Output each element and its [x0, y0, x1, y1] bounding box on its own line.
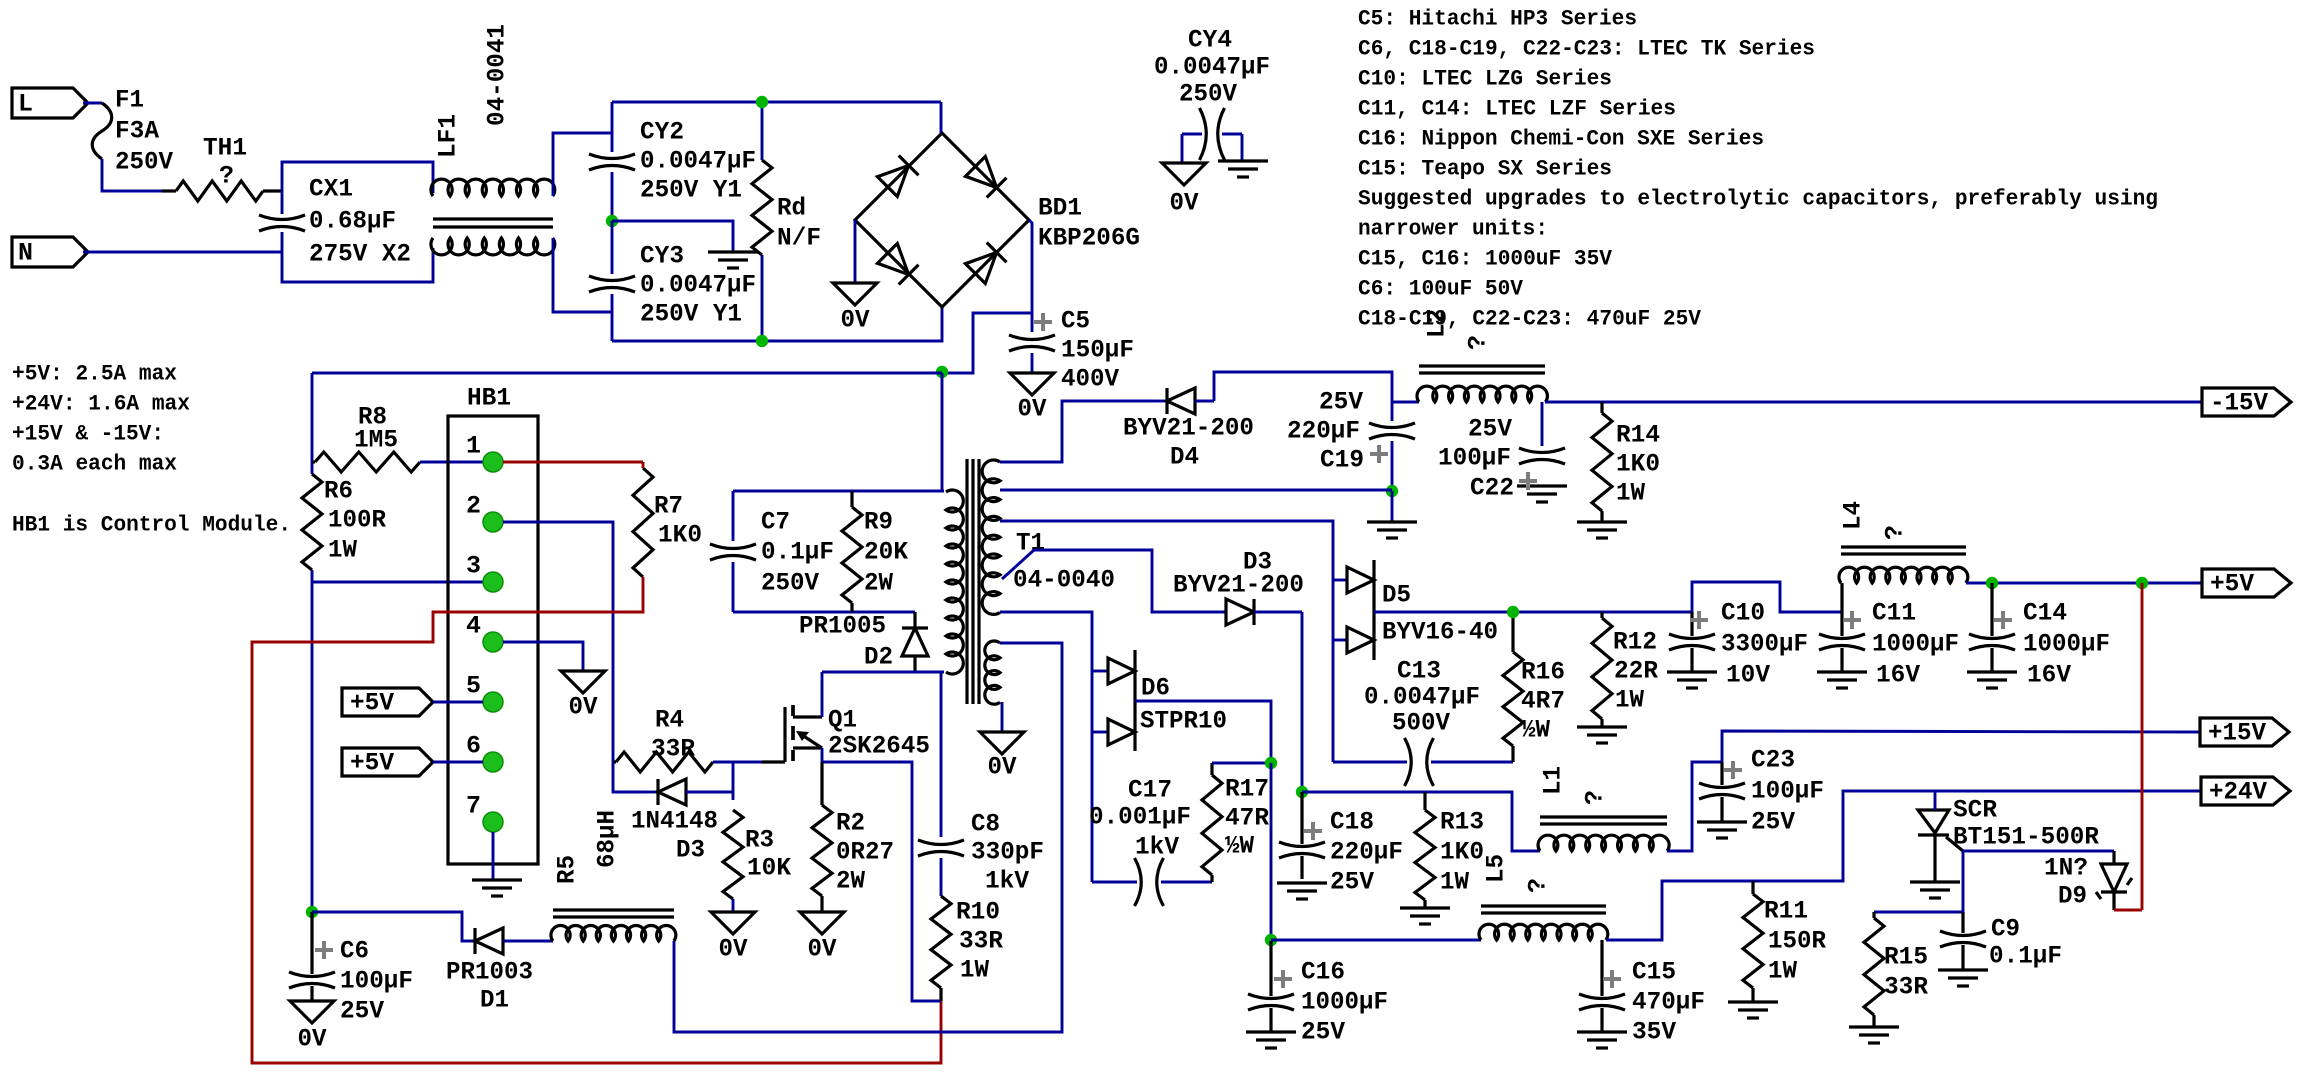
- wire C19 bottom lead: [1391, 441, 1394, 491]
- svg-text:0.0047µF: 0.0047µF: [640, 271, 756, 300]
- svg-text:C23: C23: [1751, 746, 1795, 775]
- transformer T1 secondary top winding: [982, 460, 1000, 614]
- wire D3s to R3 gate stub: [732, 762, 735, 800]
- svg-text:0V: 0V: [1018, 395, 1047, 424]
- power flag -15V: [2202, 388, 2291, 416]
- svg-text:2W: 2W: [864, 569, 893, 598]
- wire SCR gate net: [1963, 850, 2114, 853]
- ground C15: [1577, 1030, 1627, 1033]
- wire D3 to +15V node: [1301, 612, 1304, 792]
- resistor R8: [312, 460, 315, 463]
- svg-text:2: 2: [466, 492, 481, 521]
- svg-text:C13: C13: [1397, 657, 1441, 686]
- wire bridge output down: [942, 220, 1032, 373]
- svg-text:KBP206G: KBP206G: [1038, 224, 1140, 253]
- svg-text:150R: 150R: [1768, 927, 1826, 956]
- svg-text:+5V: +5V: [350, 689, 394, 718]
- capacitor C6: [310, 912, 313, 974]
- wire D6 node down: [1270, 763, 1273, 940]
- ground C18: [1277, 881, 1327, 884]
- svg-text:1kV: 1kV: [1135, 833, 1179, 862]
- wire T1 to C19 junction: [1000, 489, 1392, 492]
- wire CX1 top edge: [282, 162, 433, 214]
- junction D6 output node: [1265, 757, 1277, 769]
- svg-text:½W: ½W: [1521, 716, 1550, 745]
- power flag +24V: [2201, 777, 2290, 805]
- svg-text:0.1µF: 0.1µF: [1989, 942, 2062, 971]
- wire C5 top lead: [1031, 313, 1034, 332]
- svg-text:250V: 250V: [761, 569, 819, 598]
- connector HB1 pin 7: [483, 812, 503, 832]
- polarity mark C19: [1370, 445, 1388, 463]
- svg-text:HB1: HB1: [467, 384, 511, 413]
- svg-text:C15: Teapo SX Series: C15: Teapo SX Series: [1358, 157, 1612, 182]
- junction +5V red branch: [2136, 577, 2148, 589]
- junction C16 node: [1265, 934, 1277, 946]
- transistor Q1 source bar: [793, 746, 822, 749]
- wire R4 right to gate: [713, 761, 762, 764]
- svg-text:C16: C16: [1301, 958, 1345, 987]
- svg-text:BYV21-200: BYV21-200: [1123, 414, 1254, 443]
- ground C11: [1817, 670, 1867, 673]
- transistor Q1 drain bar: [793, 715, 822, 718]
- ground C5 0V: [1010, 373, 1054, 395]
- wire CY2 to midpoint: [611, 172, 614, 221]
- svg-text:Q1: Q1: [828, 706, 857, 735]
- ground R2 0V: [800, 912, 844, 934]
- wire T1 bottom tap to D6: [1000, 612, 1092, 882]
- polarity mark C23: [1724, 761, 1742, 779]
- svg-text:0.0047µF: 0.0047µF: [1154, 53, 1270, 82]
- diode D2 PR1005: [913, 612, 916, 628]
- capacitor CY4: [1182, 133, 1202, 136]
- svg-text:C11, C14: LTEC LZF Series: C11, C14: LTEC LZF Series: [1358, 97, 1676, 122]
- polarity mark C22: [1519, 472, 1537, 490]
- wire C8 to R10: [940, 858, 943, 896]
- svg-text:½W: ½W: [1225, 832, 1254, 861]
- diode D1 PR1003: [474, 940, 475, 943]
- wire aux to D1: [312, 912, 474, 941]
- svg-text:C6: 100uF 50V: C6: 100uF 50V: [1358, 277, 1524, 302]
- svg-text:1K0: 1K0: [658, 521, 702, 550]
- svg-text:+15V: +15V: [2208, 719, 2266, 748]
- svg-text:C5: Hitachi HP3 Series: C5: Hitachi HP3 Series: [1358, 7, 1637, 32]
- svg-text:L2: L2: [1423, 309, 1452, 338]
- diode D9 1N: [2112, 851, 2115, 864]
- svg-text:0V: 0V: [569, 693, 598, 722]
- fuse F1: [92, 103, 112, 159]
- wire bridge top to rail: [940, 102, 943, 133]
- polarity mark C11: [1843, 611, 1861, 629]
- svg-text:-15V: -15V: [2210, 389, 2268, 418]
- polarity mark C5: [1034, 313, 1052, 331]
- svg-text:BT151-500R: BT151-500R: [1953, 823, 2099, 852]
- svg-text:25V: 25V: [1468, 415, 1512, 444]
- wire red +5V sense: [2141, 583, 2144, 910]
- capacitor CY2: [589, 154, 635, 159]
- svg-text:04-0041: 04-0041: [483, 24, 512, 126]
- wire pin6 flag: [433, 761, 483, 764]
- svg-text:275V X2: 275V X2: [309, 240, 411, 269]
- junction aux rail: [306, 906, 318, 918]
- power flag +5V output: [2202, 569, 2291, 597]
- inductor L2: [1417, 386, 1547, 402]
- ground R15: [1849, 1025, 1899, 1028]
- thermistor TH1: [162, 189, 176, 192]
- wire +15V node rail: [1302, 792, 1540, 851]
- svg-text:0V: 0V: [1170, 189, 1199, 218]
- svg-text:R16: R16: [1521, 658, 1565, 687]
- svg-text:1000µF: 1000µF: [1872, 630, 1959, 659]
- ground SCR cathode: [1910, 880, 1960, 883]
- svg-text:1000µF: 1000µF: [1301, 988, 1388, 1017]
- wire Q1 drain lead: [821, 672, 824, 717]
- wire gate to C9 R15: [1874, 851, 1963, 912]
- connector HB1 pin 3: [483, 572, 503, 592]
- svg-text:1N4148: 1N4148: [631, 807, 718, 836]
- svg-text:220µF: 220µF: [1287, 417, 1360, 446]
- wire C10 bump: [1692, 582, 1842, 612]
- svg-text:+15V & -15V:: +15V & -15V:: [12, 422, 164, 447]
- bridge rectifier BD1 diamond: [855, 133, 1029, 307]
- capacitor C18: [1300, 792, 1303, 844]
- svg-text:20K: 20K: [864, 538, 908, 567]
- svg-text:16V: 16V: [2027, 661, 2071, 690]
- svg-text:C8: C8: [971, 810, 1000, 839]
- svg-text:33R: 33R: [959, 927, 1003, 956]
- bridge diode upper-left: [878, 165, 909, 196]
- inductor R5: [551, 925, 676, 941]
- svg-text:F1: F1: [115, 86, 144, 115]
- wire L1 to +15V rail: [1667, 731, 2200, 851]
- wire C19 junction to ground: [1391, 491, 1394, 522]
- svg-text:150µF: 150µF: [1061, 336, 1134, 365]
- connector HB1 pin 5: [483, 692, 503, 712]
- connector HB1 pin 6: [483, 752, 503, 772]
- svg-text:R2: R2: [836, 809, 865, 838]
- ground CY4 0V: [1162, 163, 1206, 185]
- wire CY3 bottom lead: [611, 294, 614, 341]
- polarity mark C6: [315, 941, 333, 959]
- svg-text:400V: 400V: [1061, 365, 1119, 394]
- transistor Q1 body arrow: [802, 735, 822, 748]
- bridge diode lower-left: [878, 244, 909, 275]
- svg-text:R17: R17: [1225, 775, 1269, 804]
- ground C9: [1938, 968, 1988, 971]
- ground C10: [1667, 670, 1717, 673]
- diode D3 1N4148: [644, 791, 658, 794]
- wire T1 bottom pin to ground: [1001, 702, 1004, 732]
- diode D5 BYV16-40 dual: [1347, 567, 1374, 593]
- diode D3 BYV21-200: [1152, 611, 1226, 614]
- junction CY midpoint: [606, 215, 618, 227]
- svg-text:0V: 0V: [988, 753, 1017, 782]
- svg-text:3: 3: [466, 552, 481, 581]
- resistor R17: [1210, 763, 1213, 775]
- wire D9 to red return: [2114, 909, 2142, 912]
- junction C14 top: [1986, 577, 1998, 589]
- wire rectified to left rail: [312, 372, 942, 375]
- svg-text:220µF: 220µF: [1330, 838, 1403, 867]
- svg-text:?: ?: [1464, 335, 1493, 350]
- svg-text:3300µF: 3300µF: [1721, 630, 1808, 659]
- svg-text:1W: 1W: [1440, 868, 1469, 897]
- wire C16 to L5: [1271, 939, 1481, 942]
- wire C7 top lead: [732, 491, 735, 541]
- wire pin1 red: [503, 461, 643, 464]
- svg-text:R5: R5: [553, 855, 582, 884]
- svg-text:04-0040: 04-0040: [1013, 566, 1115, 595]
- transistor Q1 channel: [791, 705, 795, 761]
- svg-text:1W: 1W: [328, 536, 357, 565]
- svg-text:330pF: 330pF: [971, 838, 1044, 867]
- svg-text:1W: 1W: [1768, 957, 1797, 986]
- svg-text:Rd: Rd: [777, 194, 806, 223]
- connector HB1 pin 2: [483, 512, 503, 532]
- ground T1 secondary 0V: [980, 732, 1024, 754]
- ground Y-cap midpoint: [708, 250, 758, 253]
- wire CX1 bottom edge: [282, 232, 433, 282]
- wire Rd bottom lead: [761, 255, 764, 341]
- transistor Q1 gate: [762, 760, 785, 763]
- wire CY4 left to ground: [1181, 134, 1184, 163]
- svg-text:500V: 500V: [1392, 709, 1450, 738]
- wire D6 lower stub: [1092, 731, 1108, 734]
- svg-text:22R: 22R: [1614, 657, 1658, 686]
- svg-text:D3: D3: [676, 836, 705, 865]
- wire F1 to TH1: [102, 159, 162, 191]
- svg-text:250V: 250V: [115, 148, 173, 177]
- wire SCR anode: [1934, 791, 1937, 810]
- wire D5 output rail: [1374, 611, 1692, 614]
- ground C6 0V: [290, 1001, 334, 1023]
- wire pin2 to gate net: [503, 522, 613, 762]
- svg-text:33R: 33R: [1884, 973, 1928, 1002]
- wire C22 top lead: [1541, 402, 1544, 446]
- ground R12: [1577, 725, 1627, 728]
- svg-text:STPR10: STPR10: [1140, 707, 1227, 736]
- wire pin4 to ground: [503, 642, 583, 671]
- ground bridge AC left 0V: [833, 283, 877, 305]
- wire Rd top lead: [761, 102, 764, 160]
- resistor R10: [931, 896, 951, 988]
- capacitor C15: [1600, 940, 1603, 996]
- svg-text:PR1005: PR1005: [799, 612, 886, 641]
- ground pin7: [472, 878, 522, 881]
- svg-text:5: 5: [466, 672, 481, 701]
- svg-text:C15: C15: [1632, 958, 1676, 987]
- svg-text:BYV21-200: BYV21-200: [1173, 571, 1304, 600]
- svg-text:0V: 0V: [841, 306, 870, 335]
- svg-text:F3A: F3A: [115, 117, 159, 146]
- resistor R13: [1423, 792, 1426, 810]
- inductor L4: [1839, 567, 1968, 583]
- inductor L1: [1538, 835, 1669, 851]
- svg-text:D4: D4: [1170, 443, 1199, 472]
- svg-text:0.1µF: 0.1µF: [761, 538, 834, 567]
- svg-text:C6, C18-C19, C22-C23: LTEC TK: C6, C18-C19, C22-C23: LTEC TK Series: [1358, 37, 1815, 62]
- svg-text:1: 1: [466, 432, 481, 461]
- wire -15V rail: [1545, 401, 2202, 404]
- svg-text:1K0: 1K0: [1616, 450, 1660, 479]
- svg-text:R3: R3: [745, 826, 774, 855]
- wire LF1 to CY3 bottom: [553, 238, 612, 312]
- svg-text:1K0: 1K0: [1440, 838, 1484, 867]
- svg-text:+5V: 2.5A max: +5V: 2.5A max: [12, 362, 177, 387]
- inductor LF1 bottom winding: [431, 238, 555, 255]
- junction Rd top: [756, 96, 768, 108]
- svg-text:1kV: 1kV: [985, 867, 1029, 896]
- svg-text:D2: D2: [864, 643, 893, 672]
- wire bridge left to ground: [854, 220, 857, 283]
- svg-text:?: ?: [1581, 790, 1610, 805]
- wire N to CX1: [83, 251, 282, 254]
- ground C22: [1517, 484, 1567, 487]
- svg-text:0.001µF: 0.001µF: [1089, 803, 1191, 832]
- wire pin3 to rail: [312, 581, 483, 584]
- svg-text:TH1: TH1: [203, 134, 247, 163]
- wire T1 diag tap: [1002, 550, 1153, 612]
- svg-text:C18: C18: [1330, 808, 1374, 837]
- svg-text:+5V: +5V: [2210, 570, 2254, 599]
- wire -15V rail left: [1392, 401, 1419, 404]
- power flag +15V: [2200, 718, 2289, 746]
- svg-text:4R7: 4R7: [1521, 687, 1565, 716]
- connector HB1 pin 1: [483, 452, 503, 472]
- capacitor C19: [1369, 423, 1415, 428]
- resistor R11: [1751, 881, 1754, 894]
- wire Y-cap bottom rail: [612, 307, 942, 341]
- svg-text:1W: 1W: [960, 956, 989, 985]
- bridge diode upper-right: [966, 157, 997, 188]
- capacitor C17: [1092, 881, 1137, 884]
- svg-text:0.0047µF: 0.0047µF: [640, 147, 756, 176]
- ground pin4 0V: [561, 671, 605, 693]
- wire R3 to ground: [732, 899, 735, 912]
- svg-text:1000µF: 1000µF: [2023, 630, 2110, 659]
- svg-text:1M5: 1M5: [354, 426, 398, 455]
- wire +5V rail: [1966, 582, 2202, 585]
- svg-text:4: 4: [466, 612, 481, 641]
- svg-text:CY3: CY3: [640, 242, 684, 271]
- capacitor C14: [1990, 583, 1993, 636]
- wire D6 output: [1135, 701, 1271, 763]
- connector HB1 outline: [448, 416, 538, 864]
- svg-text:1W: 1W: [1616, 479, 1645, 508]
- svg-text:+24V: 1.6A max: +24V: 1.6A max: [12, 392, 190, 417]
- connector HB1 pin 4: [483, 632, 503, 652]
- capacitor C9: [1961, 912, 1964, 933]
- polarity mark C14: [1994, 611, 2012, 629]
- svg-text:SCR: SCR: [1953, 796, 1997, 825]
- svg-text:0V: 0V: [719, 935, 748, 964]
- wire L5 to +24V rail: [1606, 791, 2201, 940]
- svg-text:N/F: N/F: [777, 224, 821, 253]
- resistor R3: [723, 810, 743, 899]
- svg-text:C6: C6: [340, 937, 369, 966]
- wire left rail lower: [311, 570, 314, 912]
- ground CY4 right: [1218, 159, 1268, 162]
- svg-text:100µF: 100µF: [1438, 444, 1511, 473]
- diode D9 zener tails: [2096, 892, 2101, 899]
- svg-text:PR1003: PR1003: [446, 958, 533, 987]
- svg-text:C22: C22: [1470, 474, 1514, 503]
- transformer T1 primary winding: [946, 490, 963, 674]
- wire D3s left lead: [613, 762, 644, 792]
- power flag +5V pin6: [342, 748, 433, 776]
- wire LF1 to CY2 top: [553, 133, 612, 196]
- svg-text:R7: R7: [654, 492, 683, 521]
- svg-text:0.3A each max: 0.3A each max: [12, 452, 177, 477]
- svg-text:R4: R4: [655, 706, 684, 735]
- wire Y-cap top rail: [612, 101, 941, 104]
- polarity mark C10: [1690, 611, 1708, 629]
- svg-text:L5: L5: [1482, 854, 1511, 883]
- wire C7 box bottom: [733, 611, 915, 614]
- svg-text:C16: Nippon Chemi-Con SXE Seri: C16: Nippon Chemi-Con SXE Series: [1358, 127, 1764, 152]
- diode D6 STPR10 dual: [1108, 658, 1135, 684]
- svg-text:25V: 25V: [1319, 388, 1363, 417]
- svg-text:1W: 1W: [1615, 686, 1644, 715]
- resistor R16: [1511, 612, 1514, 652]
- transformer T1 core: [965, 459, 968, 704]
- svg-text:L1: L1: [1539, 766, 1568, 795]
- svg-text:R9: R9: [864, 508, 893, 537]
- svg-text:47R: 47R: [1225, 804, 1269, 833]
- ground C14: [1967, 670, 2017, 673]
- wire CY4 right to ground: [1241, 134, 1244, 161]
- wire R5 to T1 aux: [674, 643, 1062, 1032]
- diode D4 BYV21-200: [1153, 400, 1167, 403]
- junction Rd bottom: [756, 335, 768, 347]
- svg-text:L: L: [18, 90, 33, 119]
- svg-text:C5: C5: [1061, 307, 1090, 336]
- ground R14: [1577, 520, 1627, 523]
- transformer T1 secondary bottom winding: [985, 641, 1000, 704]
- thyristor SCR BT151: [1918, 810, 1949, 833]
- svg-text:R12: R12: [1613, 628, 1657, 657]
- wire R17 to D6 junction: [1212, 762, 1271, 765]
- svg-text:33R: 33R: [651, 735, 695, 764]
- wire D5 upper stub: [1333, 579, 1347, 582]
- svg-text:CX1: CX1: [309, 175, 353, 204]
- wire L to F1: [83, 102, 102, 105]
- svg-text:R13: R13: [1440, 808, 1484, 837]
- resistor Rd: [752, 160, 772, 255]
- svg-text:0R27: 0R27: [836, 838, 894, 867]
- svg-text:BYV16-40: BYV16-40: [1382, 618, 1498, 647]
- svg-text:R6: R6: [324, 477, 353, 506]
- capacitor C8: [918, 840, 964, 845]
- wire R7 top lead: [642, 462, 645, 468]
- svg-text:C11: C11: [1872, 599, 1916, 628]
- wire D5 lower stub: [1333, 639, 1347, 642]
- svg-text:100µF: 100µF: [340, 967, 413, 996]
- resistor R14: [1600, 402, 1603, 413]
- wire pin7 to ground: [492, 832, 495, 880]
- svg-text:2W: 2W: [836, 867, 865, 896]
- svg-text:0.0047µF: 0.0047µF: [1364, 683, 1480, 712]
- svg-text:0V: 0V: [808, 935, 837, 964]
- capacitor C10: [1690, 612, 1693, 636]
- capacitor C13: [1333, 761, 1407, 764]
- capacitor C11: [1840, 583, 1843, 636]
- svg-text:C10: LTEC LZG Series: C10: LTEC LZG Series: [1358, 67, 1612, 92]
- svg-text:C18-C19, C22-C23: 470uF 25V: C18-C19, C22-C23: 470uF 25V: [1358, 307, 1702, 332]
- junction C19 ground: [1386, 485, 1398, 497]
- capacitor CX1: [259, 215, 305, 220]
- svg-text:0.68µF: 0.68µF: [309, 207, 396, 236]
